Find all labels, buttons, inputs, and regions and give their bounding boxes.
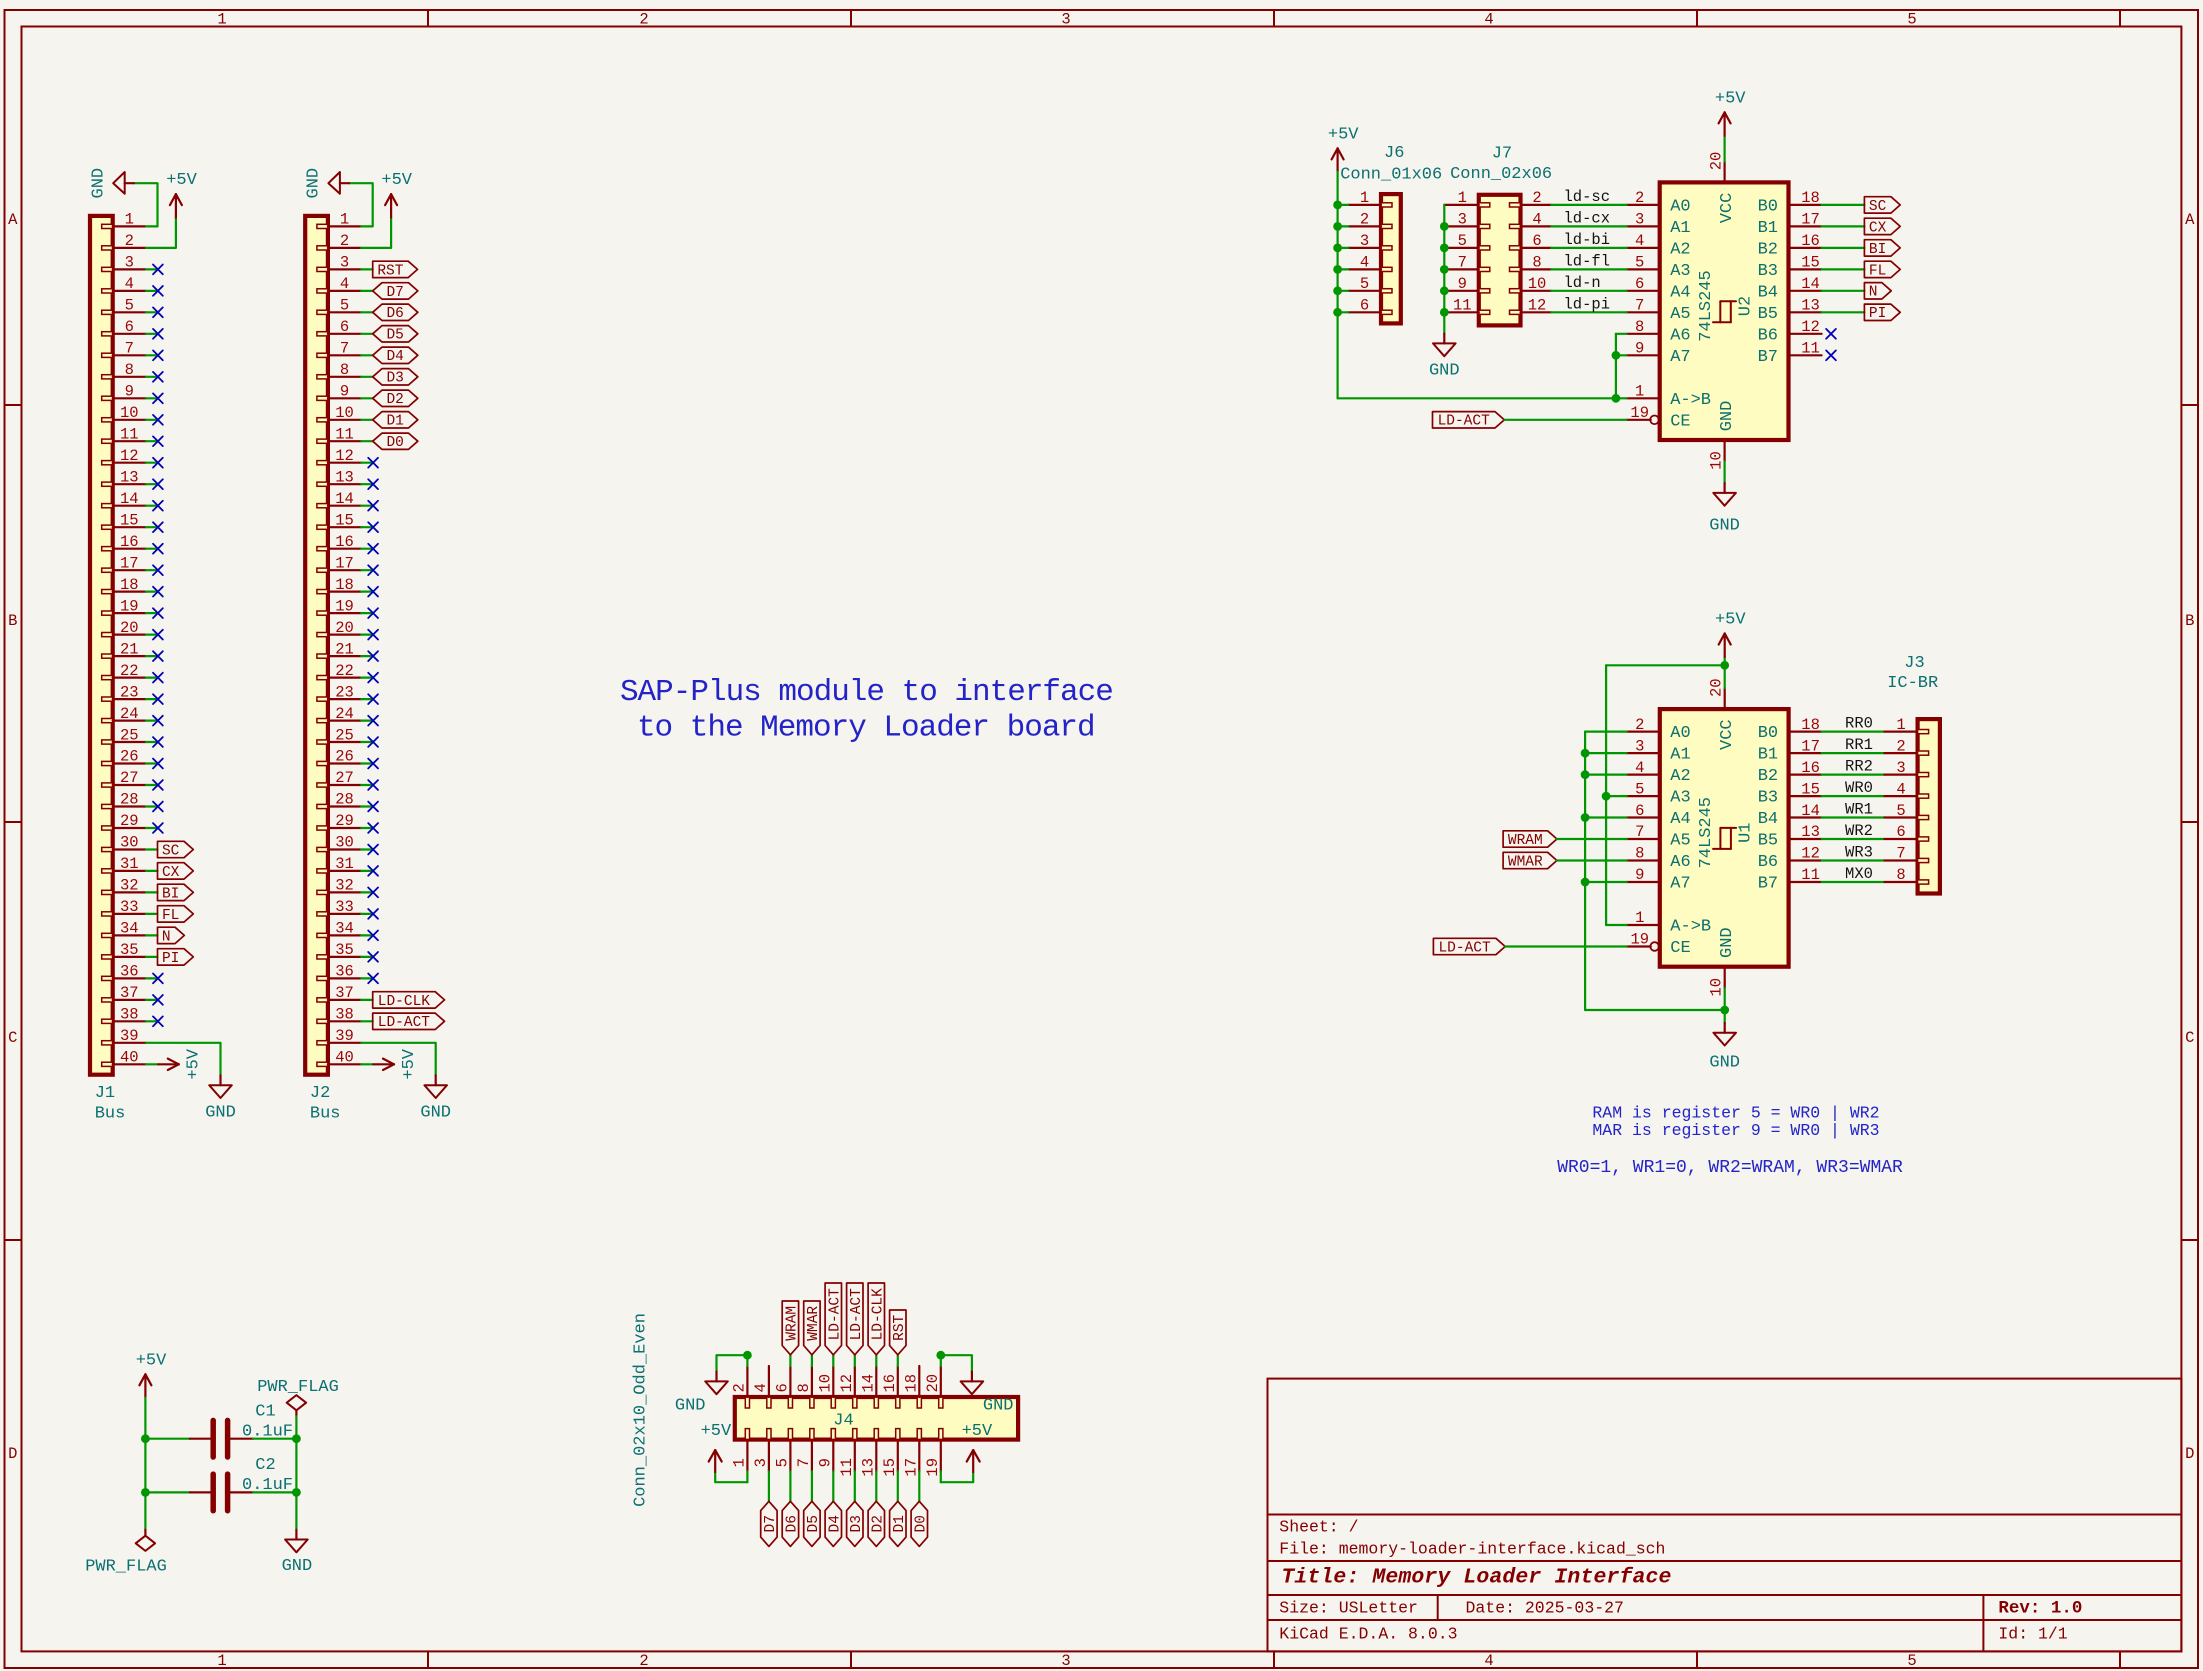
svg-text:9: 9 (817, 1458, 835, 1467)
svg-text:38: 38 (335, 1006, 354, 1024)
svg-text:9: 9 (125, 383, 134, 401)
svg-text:5: 5 (125, 297, 134, 315)
svg-text:28: 28 (335, 791, 354, 809)
svg-text:17: 17 (335, 554, 354, 572)
svg-text:8: 8 (1635, 318, 1644, 336)
svg-text:RST: RST (377, 263, 403, 279)
svg-text:27: 27 (335, 769, 354, 787)
svg-text:J3: J3 (1904, 654, 1924, 673)
svg-text:4: 4 (1532, 211, 1541, 229)
svg-text:WR0=1, WR1=0, WR2=WRAM, WR3=WM: WR0=1, WR1=0, WR2=WRAM, WR3=WMAR (1557, 1158, 1903, 1178)
svg-text:U2: U2 (1737, 296, 1756, 316)
svg-text:B7: B7 (1758, 875, 1778, 894)
svg-text:37: 37 (120, 984, 139, 1002)
svg-text:4: 4 (1360, 254, 1369, 272)
svg-text:11: 11 (1801, 340, 1820, 358)
svg-text:GND: GND (420, 1103, 451, 1122)
svg-text:33: 33 (120, 898, 139, 916)
svg-text:29: 29 (335, 812, 354, 830)
svg-text:A: A (8, 211, 18, 229)
svg-text:LD-CLK: LD-CLK (378, 994, 431, 1010)
svg-text:35: 35 (120, 941, 139, 959)
svg-text:D0: D0 (913, 1515, 929, 1532)
svg-text:ld-pi: ld-pi (1564, 295, 1611, 313)
svg-text:5: 5 (774, 1458, 792, 1467)
svg-text:9: 9 (1458, 275, 1467, 293)
svg-text:7: 7 (1896, 845, 1905, 863)
svg-text:D: D (2185, 1445, 2194, 1463)
svg-text:A0: A0 (1670, 198, 1690, 217)
svg-text:LD-ACT: LD-ACT (1438, 414, 1491, 430)
svg-text:PWR_FLAG: PWR_FLAG (85, 1557, 167, 1576)
svg-text:A0: A0 (1670, 724, 1690, 743)
svg-text:A1: A1 (1670, 746, 1690, 765)
svg-text:GND: GND (983, 1397, 1014, 1416)
svg-text:5: 5 (1458, 232, 1467, 250)
svg-text:C: C (8, 1029, 17, 1047)
svg-text:J7: J7 (1492, 144, 1512, 163)
svg-text:31: 31 (335, 855, 354, 873)
svg-text:11: 11 (120, 426, 139, 444)
svg-text:10: 10 (1708, 978, 1726, 997)
svg-text:D1: D1 (386, 414, 403, 430)
svg-text:18: 18 (335, 576, 354, 594)
svg-text:D2: D2 (870, 1515, 886, 1532)
svg-text:10: 10 (1707, 451, 1725, 470)
svg-text:23: 23 (120, 683, 139, 701)
svg-text:17: 17 (1801, 737, 1820, 755)
svg-text:3: 3 (1458, 211, 1467, 229)
svg-text:2: 2 (731, 1383, 749, 1392)
svg-text:8: 8 (1532, 254, 1541, 272)
svg-text:RR2: RR2 (1845, 758, 1873, 776)
svg-text:WRAM: WRAM (785, 1306, 801, 1341)
svg-text:+5V: +5V (136, 1351, 167, 1370)
svg-text:GND: GND (1718, 927, 1737, 958)
svg-text:B0: B0 (1758, 198, 1778, 217)
svg-text:29: 29 (120, 812, 139, 830)
svg-text:26: 26 (120, 748, 139, 766)
svg-text:10: 10 (1528, 275, 1547, 293)
svg-text:40: 40 (120, 1049, 139, 1067)
svg-text:13: 13 (120, 468, 139, 486)
svg-text:6: 6 (125, 318, 134, 336)
svg-text:9: 9 (1635, 866, 1644, 884)
svg-text:WMAR: WMAR (806, 1306, 822, 1341)
svg-text:WRAM: WRAM (1508, 833, 1543, 849)
svg-text:1: 1 (1635, 909, 1644, 927)
svg-text:A6: A6 (1670, 853, 1690, 872)
svg-text:34: 34 (120, 920, 139, 938)
svg-text:CX: CX (162, 865, 180, 881)
svg-text:2: 2 (1896, 737, 1905, 755)
svg-text:3: 3 (1061, 1652, 1070, 1670)
svg-text:WR1: WR1 (1845, 801, 1873, 819)
svg-text:A7: A7 (1670, 875, 1690, 894)
svg-text:16: 16 (335, 533, 354, 551)
svg-text:25: 25 (120, 726, 139, 744)
svg-text:D3: D3 (849, 1515, 865, 1532)
svg-text:3: 3 (1360, 232, 1369, 250)
svg-text:6: 6 (1896, 823, 1905, 841)
svg-text:12: 12 (1801, 318, 1820, 336)
svg-text:D4: D4 (827, 1515, 843, 1532)
svg-text:Rev: 1.0: Rev: 1.0 (1998, 1598, 2082, 1618)
svg-text:18: 18 (1801, 189, 1820, 207)
svg-text:+5V: +5V (400, 1048, 419, 1079)
svg-text:6: 6 (1532, 232, 1541, 250)
svg-text:12: 12 (838, 1374, 856, 1393)
svg-text:B4: B4 (1758, 810, 1778, 829)
svg-text:D7: D7 (763, 1515, 779, 1532)
svg-text:18: 18 (902, 1374, 920, 1393)
svg-text:13: 13 (859, 1458, 877, 1477)
svg-text:5: 5 (1635, 780, 1644, 798)
svg-text:B: B (2185, 612, 2194, 630)
svg-text:11: 11 (1453, 297, 1472, 315)
svg-text:D1: D1 (892, 1515, 908, 1532)
svg-text:7: 7 (1635, 823, 1644, 841)
svg-text:22: 22 (120, 662, 139, 680)
svg-text:19: 19 (120, 597, 139, 615)
svg-text:16: 16 (120, 533, 139, 551)
svg-text:36: 36 (120, 963, 139, 981)
svg-text:18: 18 (120, 576, 139, 594)
svg-text:11: 11 (335, 426, 354, 444)
svg-text:2: 2 (639, 1652, 648, 1670)
svg-text:20: 20 (924, 1374, 942, 1393)
svg-text:19: 19 (1630, 404, 1649, 422)
svg-text:3: 3 (1635, 211, 1644, 229)
svg-text:1: 1 (217, 11, 226, 29)
svg-text:5: 5 (1907, 11, 1916, 29)
svg-text:36: 36 (335, 963, 354, 981)
svg-text:+5V: +5V (1715, 611, 1746, 630)
svg-text:U1: U1 (1737, 822, 1756, 842)
svg-text:74LS245: 74LS245 (1697, 270, 1716, 341)
svg-text:5: 5 (1360, 275, 1369, 293)
svg-text:GND: GND (205, 1103, 236, 1122)
svg-text:J4: J4 (833, 1412, 853, 1431)
svg-text:A->B: A->B (1670, 918, 1711, 937)
svg-text:J2: J2 (310, 1084, 330, 1103)
svg-text:4: 4 (1484, 1652, 1493, 1670)
svg-text:A4: A4 (1670, 283, 1690, 302)
svg-text:3: 3 (1635, 737, 1644, 755)
svg-text:7: 7 (795, 1458, 813, 1467)
svg-text:0.1uF: 0.1uF (242, 1476, 293, 1495)
svg-text:D5: D5 (386, 328, 403, 344)
svg-text:39: 39 (120, 1027, 139, 1045)
svg-text:B6: B6 (1758, 853, 1778, 872)
svg-text:19: 19 (924, 1458, 942, 1477)
svg-text:12: 12 (335, 447, 354, 465)
svg-text:+5V: +5V (185, 1048, 204, 1079)
svg-text:9: 9 (1635, 340, 1644, 358)
svg-text:SC: SC (1869, 199, 1887, 215)
svg-text:4: 4 (1896, 780, 1905, 798)
svg-text:B1: B1 (1758, 219, 1778, 238)
svg-text:14: 14 (1801, 802, 1820, 820)
svg-text:4: 4 (752, 1383, 770, 1392)
svg-text:A3: A3 (1670, 789, 1690, 808)
svg-text:GND: GND (1718, 401, 1737, 432)
svg-text:B4: B4 (1758, 283, 1778, 302)
svg-text:Bus: Bus (310, 1104, 341, 1123)
svg-text:Title: Memory Loader Interface: Title: Memory Loader Interface (1281, 1565, 1671, 1589)
svg-text:SC: SC (162, 843, 180, 859)
svg-text:B: B (8, 612, 17, 630)
svg-text:+5V: +5V (166, 171, 197, 190)
svg-text:Id: 1/1: Id: 1/1 (1998, 1624, 2067, 1643)
svg-text:ld-bi: ld-bi (1564, 231, 1611, 249)
svg-text:C: C (2185, 1029, 2194, 1047)
svg-text:12: 12 (1528, 297, 1547, 315)
svg-text:24: 24 (335, 705, 354, 723)
svg-text:37: 37 (335, 984, 354, 1002)
svg-text:ld-sc: ld-sc (1564, 188, 1611, 206)
svg-text:RR1: RR1 (1845, 736, 1873, 754)
svg-text:12: 12 (120, 447, 139, 465)
svg-text:CE: CE (1670, 412, 1690, 431)
svg-text:WR2: WR2 (1845, 822, 1873, 840)
svg-text:4: 4 (1635, 759, 1644, 777)
svg-text:LD-ACT: LD-ACT (378, 1015, 431, 1031)
svg-text:Size: USLetter: Size: USLetter (1279, 1598, 1418, 1617)
svg-text:5: 5 (1896, 802, 1905, 820)
svg-text:2: 2 (1532, 189, 1541, 207)
svg-text:20: 20 (335, 619, 354, 637)
svg-text:MX0: MX0 (1845, 865, 1873, 883)
svg-text:1: 1 (125, 211, 134, 229)
svg-text:20: 20 (1707, 152, 1725, 171)
svg-text:File: memory-loader-interface.: File: memory-loader-interface.kicad_sch (1279, 1540, 1665, 1559)
svg-text:26: 26 (335, 748, 354, 766)
svg-text:1: 1 (1896, 716, 1905, 734)
svg-text:Bus: Bus (95, 1104, 126, 1123)
svg-text:D7: D7 (386, 285, 403, 301)
svg-text:10: 10 (817, 1374, 835, 1393)
svg-text:C2: C2 (255, 1456, 275, 1475)
svg-text:PI: PI (162, 951, 179, 967)
svg-text:ld-cx: ld-cx (1564, 209, 1611, 227)
svg-text:+5V: +5V (381, 171, 412, 190)
svg-text:A4: A4 (1670, 810, 1690, 829)
svg-text:WMAR: WMAR (1508, 854, 1543, 870)
svg-text:B3: B3 (1758, 789, 1778, 808)
svg-text:1: 1 (1360, 189, 1369, 207)
svg-text:6: 6 (774, 1383, 792, 1392)
svg-text:LD-CLK: LD-CLK (870, 1288, 886, 1341)
svg-text:IC-BR: IC-BR (1887, 674, 1938, 693)
svg-text:20: 20 (1708, 678, 1726, 697)
svg-text:13: 13 (1801, 297, 1820, 315)
svg-text:13: 13 (1801, 823, 1820, 841)
svg-text:35: 35 (335, 941, 354, 959)
svg-text:8: 8 (1896, 866, 1905, 884)
svg-text:11: 11 (838, 1458, 856, 1477)
svg-text:A2: A2 (1670, 767, 1690, 786)
svg-text:2: 2 (125, 232, 134, 250)
svg-text:2: 2 (1360, 211, 1369, 229)
svg-text:28: 28 (120, 791, 139, 809)
svg-text:+5V: +5V (962, 1422, 993, 1441)
svg-text:B0: B0 (1758, 724, 1778, 743)
svg-text:A5: A5 (1670, 305, 1690, 324)
svg-text:GND: GND (305, 168, 324, 199)
svg-text:4: 4 (125, 275, 134, 293)
svg-text:WR3: WR3 (1845, 844, 1873, 862)
svg-text:3: 3 (125, 254, 134, 272)
svg-text:7: 7 (1458, 254, 1467, 272)
svg-text:16: 16 (881, 1374, 899, 1393)
svg-text:34: 34 (335, 920, 354, 938)
svg-text:Conn_02x10_Odd_Even: Conn_02x10_Odd_Even (632, 1313, 651, 1507)
svg-text:FL: FL (1869, 263, 1886, 279)
svg-text:21: 21 (335, 640, 354, 658)
svg-text:GND: GND (1709, 1053, 1740, 1072)
svg-text:15: 15 (335, 511, 354, 529)
svg-text:SAP-Plus module to interface: SAP-Plus module to interface (620, 675, 1113, 710)
svg-text:A1: A1 (1670, 219, 1690, 238)
svg-text:WR0: WR0 (1845, 779, 1873, 797)
svg-text:LD-ACT: LD-ACT (1438, 940, 1491, 956)
svg-text:GND: GND (90, 168, 109, 199)
svg-text:1: 1 (217, 1652, 226, 1670)
svg-text:38: 38 (120, 1006, 139, 1024)
svg-text:Conn_02x06: Conn_02x06 (1450, 165, 1552, 184)
svg-text:3: 3 (1896, 759, 1905, 777)
svg-text:RR0: RR0 (1845, 715, 1873, 733)
svg-text:B6: B6 (1758, 326, 1778, 345)
svg-text:33: 33 (335, 898, 354, 916)
svg-text:5: 5 (1635, 254, 1644, 272)
svg-text:LD-ACT: LD-ACT (827, 1288, 843, 1341)
svg-text:12: 12 (1801, 845, 1820, 863)
svg-text:N: N (162, 929, 171, 945)
svg-text:10: 10 (120, 404, 139, 422)
svg-text:4: 4 (340, 275, 349, 293)
svg-text:9: 9 (340, 383, 349, 401)
svg-text:D5: D5 (806, 1515, 822, 1532)
svg-text:RST: RST (892, 1314, 908, 1340)
svg-text:14: 14 (1801, 275, 1820, 293)
svg-text:25: 25 (335, 726, 354, 744)
svg-text:1: 1 (1458, 189, 1467, 207)
svg-text:A7: A7 (1670, 348, 1690, 367)
svg-text:31: 31 (120, 855, 139, 873)
svg-text:18: 18 (1801, 716, 1820, 734)
svg-text:ld-n: ld-n (1564, 274, 1601, 292)
svg-text:J1: J1 (95, 1084, 115, 1103)
svg-text:RAM is register 5 = WR0 | WR2: RAM is register 5 = WR0 | WR2 (1592, 1104, 1879, 1123)
svg-text:6: 6 (1360, 297, 1369, 315)
svg-text:Sheet: /: Sheet: / (1279, 1518, 1358, 1537)
svg-text:GND: GND (675, 1397, 706, 1416)
svg-text:CE: CE (1670, 939, 1690, 958)
svg-text:B5: B5 (1758, 305, 1778, 324)
svg-text:to the Memory Loader board: to the Memory Loader board (637, 710, 1095, 745)
svg-text:B3: B3 (1758, 262, 1778, 281)
svg-text:FL: FL (162, 908, 179, 924)
svg-text:7: 7 (1635, 297, 1644, 315)
svg-text:C1: C1 (255, 1402, 275, 1421)
svg-text:6: 6 (1635, 275, 1644, 293)
svg-text:16: 16 (1801, 232, 1820, 250)
svg-text:1: 1 (340, 211, 349, 229)
svg-text:BI: BI (1869, 242, 1886, 258)
svg-text:A3: A3 (1670, 262, 1690, 281)
svg-text:3: 3 (340, 254, 349, 272)
svg-text:B5: B5 (1758, 832, 1778, 851)
svg-text:B7: B7 (1758, 348, 1778, 367)
svg-text:GND: GND (1429, 362, 1460, 381)
svg-text:74LS245: 74LS245 (1697, 797, 1716, 868)
svg-text:GND: GND (282, 1557, 313, 1576)
svg-text:B1: B1 (1758, 746, 1778, 765)
svg-text:5: 5 (1907, 1652, 1916, 1670)
svg-text:A5: A5 (1670, 832, 1690, 851)
svg-text:10: 10 (335, 404, 354, 422)
svg-text:21: 21 (120, 640, 139, 658)
svg-text:KiCad E.D.A. 8.0.3: KiCad E.D.A. 8.0.3 (1279, 1624, 1457, 1643)
svg-text:24: 24 (120, 705, 139, 723)
svg-text:15: 15 (881, 1458, 899, 1477)
svg-text:GND: GND (1709, 517, 1740, 536)
svg-text:27: 27 (120, 769, 139, 787)
svg-text:40: 40 (335, 1049, 354, 1067)
svg-text:D0: D0 (386, 435, 403, 451)
svg-text:A: A (2185, 211, 2195, 229)
svg-text:1: 1 (1635, 383, 1644, 401)
svg-text:14: 14 (859, 1374, 877, 1393)
svg-text:J6: J6 (1384, 144, 1404, 163)
svg-text:Date: 2025-03-27: Date: 2025-03-27 (1466, 1598, 1624, 1617)
svg-text:32: 32 (335, 877, 354, 895)
svg-text:B2: B2 (1758, 767, 1778, 786)
svg-text:PWR_FLAG: PWR_FLAG (257, 1378, 339, 1397)
svg-text:17: 17 (902, 1458, 920, 1477)
svg-text:D3: D3 (386, 371, 403, 387)
svg-text:11: 11 (1801, 866, 1820, 884)
svg-text:8: 8 (795, 1383, 813, 1392)
svg-text:D: D (8, 1445, 17, 1463)
svg-text:A6: A6 (1670, 326, 1690, 345)
svg-text:+5V: +5V (701, 1422, 732, 1441)
svg-text:14: 14 (335, 490, 354, 508)
svg-text:5: 5 (340, 297, 349, 315)
svg-text:VCC: VCC (1718, 719, 1737, 750)
svg-text:CX: CX (1869, 220, 1887, 236)
svg-text:22: 22 (335, 662, 354, 680)
svg-text:17: 17 (120, 554, 139, 572)
svg-text:D2: D2 (386, 392, 403, 408)
svg-text:2: 2 (639, 11, 648, 29)
svg-text:7: 7 (340, 340, 349, 358)
svg-text:PI: PI (1869, 306, 1886, 322)
svg-text:N: N (1869, 285, 1878, 301)
svg-text:32: 32 (120, 877, 139, 895)
svg-text:Conn_01x06: Conn_01x06 (1340, 165, 1442, 184)
svg-text:15: 15 (120, 511, 139, 529)
svg-text:8: 8 (125, 361, 134, 379)
svg-text:6: 6 (1635, 802, 1644, 820)
svg-text:15: 15 (1801, 254, 1820, 272)
svg-text:23: 23 (335, 683, 354, 701)
svg-text:4: 4 (1635, 232, 1644, 250)
svg-text:30: 30 (120, 834, 139, 852)
svg-text:1: 1 (731, 1458, 749, 1467)
